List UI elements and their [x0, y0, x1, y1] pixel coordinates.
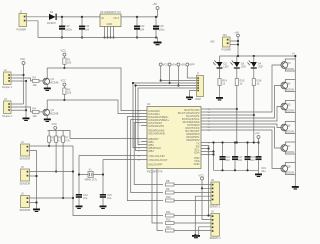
wire S2 pin3 — [11, 109, 26, 111]
wire J1 pin1 to diode — [27, 16, 50, 18]
capacitor ladder rail top — [207, 142, 259, 144]
svg-text:22p: 22p — [107, 196, 112, 200]
svg-text:10k: 10k — [33, 114, 38, 118]
power symbol row VDD — [159, 63, 168, 82]
svg-text:OSC1/CLKIN: OSC1/CLKIN — [149, 154, 165, 158]
wire J1 pin2 down to ground rail — [27, 21, 39, 38]
wire MCU RA3 to group1 — [131, 120, 163, 193]
wire MCU RA4 to group1 — [134, 123, 163, 185]
wire S1 pin2 — [11, 78, 33, 81]
svg-text:104: 104 — [238, 158, 243, 162]
transistor Q5 — [281, 101, 295, 113]
ground servo connectors — [192, 235, 200, 238]
svg-text:C11: C11 — [85, 24, 90, 28]
wire ICSP pin3 — [133, 82, 197, 84]
connector J1 power input — [17, 10, 27, 32]
transistor Q4 — [281, 80, 295, 92]
transistor Q8 — [281, 163, 295, 175]
capacitor C16 — [220, 141, 231, 171]
wire J10 pins to rail — [230, 37, 238, 56]
ground bus lower-left — [33, 209, 40, 213]
wire pullup to MCU RB0 — [70, 138, 141, 140]
svg-text:C10: C10 — [65, 24, 70, 28]
svg-text:GND: GND — [194, 162, 200, 166]
ground D2 — [216, 97, 223, 101]
wire gnd conn1 pin4 — [195, 196, 211, 235]
svg-text:RA5/AN4/SS: RA5/AN4/SS — [149, 124, 165, 128]
svg-text:IN: IN — [101, 16, 104, 20]
power VCC symbol servo out — [199, 174, 211, 220]
svg-text:1N4007: 1N4007 — [47, 21, 57, 25]
ground servo caps — [255, 170, 262, 177]
capacitor C18 — [245, 141, 256, 171]
crystal X1 — [78, 156, 141, 195]
svg-text:MG: MG — [211, 40, 215, 44]
svg-text:104: 104 — [225, 158, 230, 162]
svg-text:Q6: Q6 — [287, 124, 291, 128]
wire J6 pin2 gnd — [30, 202, 37, 204]
ground rail — [38, 38, 158, 42]
wire MCU RC7 to Q8 — [207, 130, 281, 169]
MCU pin name text right column — [178, 108, 200, 166]
svg-text:J10: J10 — [223, 33, 228, 37]
svg-text:RB4: RB4 — [149, 149, 155, 153]
LED D3 — [231, 56, 246, 79]
svg-text:BC639: BC639 — [286, 150, 294, 154]
svg-text:SENSOR: SENSOR — [20, 208, 31, 212]
transistor Q1 — [39, 68, 59, 88]
wire J4 pin2 gnd — [30, 151, 37, 209]
svg-text:R9: R9 — [166, 187, 170, 191]
transistor Q6 — [281, 122, 295, 134]
svg-text:Simple 1: Simple 1 — [2, 85, 12, 89]
ground ICSP — [186, 97, 193, 101]
svg-text:10k: 10k — [67, 61, 72, 65]
capacitor ladder left vertical — [213, 143, 215, 171]
wire J5 pin2 gnd — [30, 175, 37, 177]
resistor R6 — [55, 131, 64, 173]
svg-text:+5V: +5V — [181, 63, 186, 67]
resistor group2 R13 — [166, 225, 211, 232]
svg-text:R8: R8 — [166, 179, 170, 183]
wire MCU RA2 to resistor row group1 — [127, 117, 163, 201]
resistor group1 R8 — [166, 179, 211, 186]
svg-text:MCLR/VPP: MCLR/VPP — [149, 163, 163, 167]
power symbol servo rail — [255, 131, 260, 143]
capacitor C19 — [256, 141, 267, 173]
power VCC bus symbol left — [20, 57, 26, 65]
ground left bus — [23, 118, 30, 122]
power symbol 3 — [177, 63, 186, 87]
wire MCU RC5 to Q6 — [207, 124, 281, 128]
wire pullup top rail — [48, 131, 71, 139]
wire MCU right lower to conn area — [207, 146, 209, 216]
capacitor C14 — [76, 193, 88, 206]
wire S1 pin1 — [11, 74, 24, 76]
wire ICSP PGC to MCU RB6 — [136, 86, 142, 151]
MCU left pin stubs — [141, 111, 147, 160]
svg-text:BC548: BC548 — [51, 112, 59, 116]
MCU U1 PIC16F877A — [147, 102, 201, 174]
connector J7 ICSP — [195, 72, 204, 102]
svg-text:R10: R10 — [166, 195, 171, 199]
ground — [154, 42, 162, 46]
resistor R4 — [33, 107, 40, 119]
svg-text:10k: 10k — [67, 91, 72, 95]
svg-text:4.7k: 4.7k — [65, 139, 71, 143]
svg-text:R12: R12 — [166, 218, 171, 222]
wire signal bus vertical — [73, 146, 163, 216]
capacitor C10 electrolytic — [59, 16, 72, 39]
svg-text:Q2: Q2 — [51, 108, 55, 112]
svg-text:V+: V+ — [292, 52, 296, 56]
wire J6 pin1 signal — [30, 197, 74, 199]
wire MCU RC3 to Q4 — [207, 86, 281, 119]
svg-text:POWER: POWER — [222, 48, 232, 52]
svg-text:LED: LED — [224, 65, 229, 69]
svg-text:1000u: 1000u — [65, 28, 73, 32]
capacitor C12 104 — [134, 16, 145, 39]
ground C14 — [76, 206, 83, 210]
svg-text:BC639: BC639 — [286, 88, 294, 92]
transistor Q2 — [39, 100, 59, 119]
svg-text:SERVO 2: SERVO 2 — [210, 236, 222, 240]
svg-text:Simple 2: Simple 2 — [2, 114, 12, 118]
wire MCLR rail1 to MCU — [47, 68, 141, 111]
power symbol 2 — [168, 63, 177, 85]
capacitor C13 electrolytic — [153, 16, 165, 39]
svg-text:R11: R11 — [166, 210, 171, 214]
svg-text:Q3: Q3 — [287, 61, 291, 65]
svg-text:Q5: Q5 — [287, 103, 291, 107]
ground motor rail — [292, 186, 299, 190]
wire under MCU to group2 row2 — [152, 169, 163, 224]
wire motor power rail — [220, 55, 296, 57]
wire MCU RC0 to LED D3 — [207, 108, 237, 110]
svg-text:R3: R3 — [33, 76, 37, 80]
power symbol 4 — [186, 63, 195, 78]
diode D1 — [47, 10, 57, 25]
resistor R16 — [252, 79, 262, 144]
svg-text:100u: 100u — [159, 28, 165, 32]
wire regulator out to +5V node — [121, 16, 158, 18]
power VCC symbol R2 pullup — [61, 79, 67, 89]
svg-text:LED: LED — [241, 65, 246, 69]
LED D4 — [248, 56, 263, 79]
svg-text:RD2/PSP2: RD2/PSP2 — [187, 138, 201, 142]
svg-text:ICSP: ICSP — [195, 97, 201, 101]
svg-text:OSC2/CLKOUT: OSC2/CLKOUT — [149, 158, 168, 162]
resistor group1 R10 — [166, 195, 211, 202]
svg-text:VCC: VCC — [163, 63, 169, 67]
svg-text:C12: C12 — [140, 24, 145, 28]
svg-text:104: 104 — [250, 158, 255, 162]
svg-text:VCC: VCC — [52, 122, 58, 126]
VCC bus vertical — [23, 65, 25, 105]
wire MCU RC2 to LED D4 — [207, 114, 254, 116]
svg-text:VCC: VCC — [61, 49, 67, 53]
svg-text:Q8: Q8 — [287, 165, 291, 169]
svg-text:+6V: +6V — [255, 131, 260, 135]
svg-text:U6 LM2940CT-5.0: U6 LM2940CT-5.0 — [100, 10, 121, 14]
svg-text:22p: 22p — [83, 196, 88, 200]
svg-text:VCC: VCC — [61, 79, 67, 83]
svg-text:U1: U1 — [147, 102, 151, 106]
wire ICSP pin6 to ground — [190, 91, 197, 97]
wire ICSP pin4 — [136, 85, 197, 87]
ground C15 — [100, 206, 107, 210]
connector J9 servo out 2 — [210, 210, 222, 241]
wire MCU to ladder — [207, 151, 214, 153]
GND bus vertical — [25, 81, 27, 118]
capacitor C11 104 — [79, 16, 90, 39]
svg-text:SERVO 1: SERVO 1 — [210, 205, 222, 209]
resistor R5 — [48, 131, 57, 148]
wire MCU RC4 to Q5 — [207, 107, 281, 122]
connector J6 servo in 3 — [20, 192, 31, 213]
power +5V symbol — [153, 2, 160, 17]
connector J10 motor power — [211, 33, 232, 52]
wire diode to regulator — [57, 16, 100, 18]
svg-text:VCC: VCC — [20, 57, 26, 61]
resistor R15 — [235, 79, 245, 144]
svg-text:RE1/WR/AN6: RE1/WR/AN6 — [149, 132, 166, 136]
svg-text:OUT: OUT — [114, 16, 120, 20]
connector S2 — [2, 97, 12, 118]
resistor R14 — [218, 79, 228, 98]
wire under MCU to group2 row3 — [157, 169, 163, 231]
resistor group2 R11 — [166, 210, 211, 217]
ground Q2 — [44, 119, 51, 123]
wire J5 pin1 signal — [30, 171, 74, 173]
power symbol motor — [235, 31, 240, 37]
connector S1 — [2, 68, 12, 89]
resistor R3 — [33, 76, 40, 88]
ground Q1 — [44, 88, 51, 92]
regulator U6 LM2940 — [100, 10, 121, 39]
wire S2 pin1 — [11, 103, 24, 105]
motor rail right vertical — [294, 56, 296, 186]
MCU pin name text left column — [149, 109, 170, 167]
svg-text:BC639: BC639 — [286, 67, 294, 71]
connector J5 servo in 2 — [20, 165, 31, 186]
power VCC symbol pullup row — [52, 122, 58, 131]
wire ICSP PGD to MCU RB7 — [133, 83, 141, 148]
resistor R1 10k — [63, 58, 72, 70]
wire ICSP pin1 — [187, 77, 196, 79]
wire S1 pin3 — [11, 80, 26, 82]
resistor R2 10k — [63, 88, 72, 102]
MCU right pin stubs — [201, 109, 207, 155]
capacitor ladder rail bottom — [214, 169, 259, 171]
svg-text:+5V: +5V — [153, 2, 158, 6]
svg-text:POWER: POWER — [17, 28, 27, 32]
wire ICSP pin2 — [161, 80, 197, 82]
connector J8 servo out 1 — [210, 178, 222, 209]
svg-text:R13: R13 — [166, 225, 171, 229]
svg-text:BC639: BC639 — [286, 171, 294, 175]
wire S2 pin2 — [11, 107, 33, 112]
resistor R7 — [62, 131, 71, 200]
svg-text:D1: D1 — [50, 10, 54, 14]
svg-text:104: 104 — [85, 28, 90, 32]
transistor Q3 — [281, 59, 295, 71]
svg-text:GND: GND — [107, 22, 113, 26]
LED D2 — [213, 56, 228, 79]
wire MCU RC6 to Q7 — [207, 127, 281, 148]
power VCC symbol R1 pullup — [61, 49, 67, 59]
capacitor C15 — [100, 193, 112, 206]
svg-text:PIC16F877A: PIC16F877A — [147, 170, 163, 174]
transistor Q7 — [281, 142, 295, 154]
wire ICSP pin5 to MCU RB3 — [138, 88, 197, 145]
wire J4 pin1 signal — [30, 145, 74, 147]
svg-text:Q7: Q7 — [287, 144, 291, 148]
svg-text:VPP: VPP — [189, 63, 194, 67]
svg-text:104: 104 — [140, 28, 145, 32]
svg-text:LED: LED — [258, 65, 263, 69]
svg-text:10k: 10k — [33, 83, 38, 87]
svg-text:Q1: Q1 — [51, 77, 55, 81]
svg-text:BC639: BC639 — [286, 130, 294, 134]
MCU pin numbers — [138, 109, 211, 162]
wire rail2 to MCU — [47, 100, 141, 114]
svg-text:C13: C13 — [159, 24, 164, 28]
wire gnd conn2 pin4 — [199, 227, 211, 235]
svg-text:4MHz (XT): 4MHz (XT) — [85, 178, 97, 182]
capacitor C17 — [232, 141, 243, 171]
svg-text:BC639: BC639 — [286, 109, 294, 113]
svg-text:BC548: BC548 — [51, 81, 59, 85]
svg-text:10u: 10u — [261, 169, 266, 173]
resistor group1 R9 — [166, 187, 211, 194]
svg-text:+5V: +5V — [172, 63, 177, 67]
svg-text:SENSOR: SENSOR — [20, 182, 31, 186]
connector J4 servo in 1 — [20, 140, 31, 161]
svg-text:SDA: SDA — [194, 151, 200, 155]
svg-text:Q4: Q4 — [287, 82, 291, 86]
svg-text:SENSOR: SENSOR — [20, 157, 31, 161]
resistor group2 R12 — [166, 218, 211, 225]
svg-text:R4: R4 — [33, 107, 37, 111]
wire MCU RC1 to Q3 — [207, 65, 281, 112]
